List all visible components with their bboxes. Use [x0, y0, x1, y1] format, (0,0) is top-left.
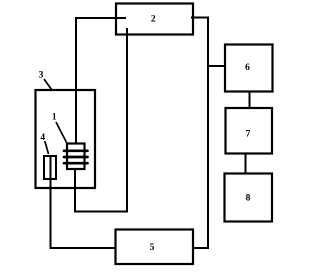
svg-text:5: 5 [150, 243, 155, 253]
wire: right bus to block 5 right [193, 247, 209, 249]
element 4 (small rectangle) [44, 156, 56, 179]
leader line for 4 [45, 141, 49, 154]
coil 1 body [67, 144, 85, 170]
wire: block 6 to block 7 [249, 92, 251, 109]
block 3 (enclosure) [36, 90, 96, 188]
svg-text:8: 8 [246, 194, 251, 204]
block 5 [116, 230, 194, 265]
block 7 [226, 108, 273, 154]
wire: right bus to block 6 [207, 65, 225, 67]
wire: right bus vertical [207, 17, 209, 249]
svg-text:1: 1 [52, 112, 57, 122]
svg-text:7: 7 [246, 130, 251, 140]
block 6 [225, 45, 273, 92]
block 2 [116, 4, 193, 35]
svg-text:3: 3 [39, 71, 44, 81]
element 4 internal wire [50, 157, 52, 178]
wire: vertical down to coil 1 top [75, 17, 77, 144]
leader line for 1 [56, 122, 67, 143]
wire: block 2 right to right bus [191, 17, 208, 19]
coil 1 windings [64, 151, 88, 163]
svg-text:4: 4 [40, 133, 45, 143]
wire: block 7 to block 8 [245, 154, 247, 174]
wire: vertical up to block 2 bottom [126, 28, 128, 213]
wire: through element 4 down to bottom [50, 157, 52, 248]
wire: bottom left horizontal to block 5 left [50, 247, 117, 249]
wire: bottom horizontal of coil loop [74, 211, 127, 213]
wire: coil 1 bottom down [74, 169, 76, 213]
svg-text:2: 2 [151, 15, 156, 25]
leader line for 3 [44, 79, 52, 90]
wire: block2 left to coil top branch (horizontal) [76, 17, 126, 19]
block 8 [225, 174, 273, 222]
svg-text:6: 6 [245, 63, 250, 73]
